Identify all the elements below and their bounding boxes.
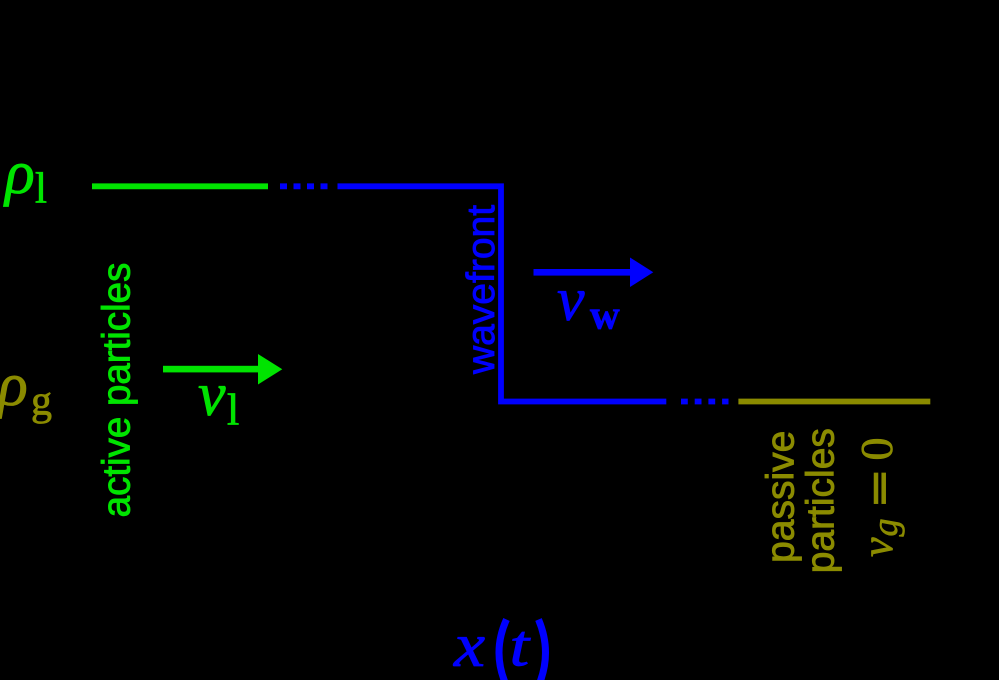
label: x(t) axis label (blue math) (453, 612, 546, 680)
svg-text:passive: passive (760, 431, 803, 563)
svg-text:0: 0 (851, 438, 902, 461)
wire: blue wavefront profile (upper plateau, vertical drop, lower plateau) (338, 186, 667, 401)
svg-text:w: w (590, 291, 620, 337)
svg-text:x: x (453, 612, 485, 680)
label: v_l (green math) (198, 361, 239, 435)
svg-text:l: l (227, 386, 239, 435)
wire: blue dotted continuation (lower level) (681, 399, 729, 405)
svg-text:t: t (510, 614, 532, 679)
wire: green density plateau line (active phase, rho_l level) (92, 183, 268, 189)
svg-text:ρ: ρ (0, 351, 28, 419)
svg-text:particles: particles (800, 428, 843, 573)
svg-text:v: v (557, 266, 585, 334)
svg-text:v: v (853, 537, 902, 557)
svg-text:l: l (35, 166, 47, 213)
wire: olive density plateau line (passive phase, rho_g level) (738, 399, 930, 405)
svg-text:g: g (865, 519, 905, 537)
label: v_w (blue math) (557, 266, 620, 337)
node rho_l label (liquid density, green) (3, 139, 47, 213)
label: v_g = 0 (olive math, rotated) (851, 438, 905, 558)
svg-text:ρ: ρ (3, 139, 35, 207)
wire: blue dotted continuation (upper level) (280, 183, 331, 189)
svg-text:wavefront: wavefront (460, 205, 503, 375)
label: wavefront (blue, rotated) (460, 205, 503, 375)
arrow: v_l velocity arrow (green) (163, 354, 282, 385)
arrow: v_w wavefront velocity arrow (blue) (534, 258, 654, 288)
svg-text:active particles: active particles (96, 263, 139, 518)
label: passive particles (olive, rotated two lines) (760, 428, 843, 573)
label: active particles (green, rotated) (96, 263, 139, 518)
svg-text:v: v (198, 361, 226, 429)
svg-text:g: g (31, 379, 52, 425)
node rho_g label (gas density, olive) (0, 351, 52, 425)
